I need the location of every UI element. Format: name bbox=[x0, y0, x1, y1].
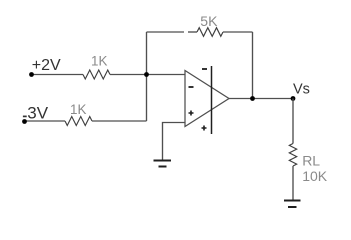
junction dot summing node bbox=[144, 72, 149, 77]
wire non-inverting input to ground column bbox=[163, 123, 185, 160]
wire +2V input lead bbox=[32, 74, 84, 76]
op-amp non-inverting input label plus bbox=[189, 111, 194, 116]
node terminal dot +2V bbox=[29, 72, 34, 77]
wire summing node vertical (feedback column) bbox=[146, 32, 148, 121]
ground symbol (op-amp + input) bbox=[154, 160, 172, 162]
svg-text:+2V: +2V bbox=[32, 57, 61, 74]
wire -3V input lead bbox=[25, 120, 66, 122]
op-amp inverting input label minus bbox=[189, 86, 194, 88]
wire top feedback rail left segment bbox=[147, 31, 185, 33]
resistor R3 5K (feedback) bbox=[197, 28, 223, 37]
svg-text:10K: 10K bbox=[302, 168, 328, 184]
svg-text:5K: 5K bbox=[200, 13, 218, 29]
resistor R2 1K (bottom input) bbox=[65, 117, 92, 126]
wire R1 to op-amp inverting input bbox=[110, 74, 185, 76]
op-amp U1 triangle bbox=[185, 71, 229, 127]
node label -3V bbox=[23, 115, 27, 117]
wire top feedback rail short segment after gap bbox=[188, 31, 197, 33]
resistor R1 1K (top input) bbox=[83, 70, 110, 79]
wire top feedback rail right segment bbox=[223, 31, 253, 33]
svg-text:Vs: Vs bbox=[293, 81, 310, 97]
node terminal dot -3V bbox=[22, 119, 27, 124]
wire output down to RL bbox=[292, 99, 294, 144]
svg-text:RL: RL bbox=[302, 153, 320, 169]
junction dot feedback tap bbox=[250, 96, 255, 101]
op-amp power label minus (top) bbox=[202, 68, 207, 70]
wire feedback rail down to output bbox=[252, 32, 254, 99]
ground symbol (load) bbox=[284, 200, 301, 202]
wire RL to ground bbox=[292, 166, 294, 200]
op-amp power pin line bbox=[211, 66, 213, 134]
op-amp power label plus (bottom) bbox=[202, 126, 207, 131]
wire op-amp output bbox=[229, 98, 293, 100]
resistor RL 10K (vertical) bbox=[289, 144, 296, 167]
svg-text:1K: 1K bbox=[70, 102, 86, 117]
wire R2 to summing node column bbox=[92, 120, 147, 122]
svg-text:3V: 3V bbox=[27, 104, 48, 123]
junction dot output Vs bbox=[291, 96, 296, 101]
svg-text:1K: 1K bbox=[91, 54, 107, 69]
